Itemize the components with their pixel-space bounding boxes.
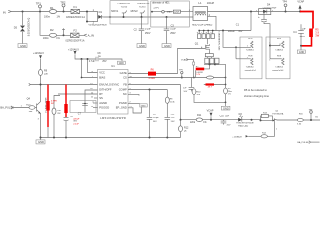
svg-text:5.7k: 5.7k [196,74,200,76]
LED D3 red [236,113,254,127]
svg-text:IN: IN [3,11,6,15]
node TP1 junction [39,11,41,13]
diode D1 [88,10,107,27]
resistor R12 lower divider [179,120,190,138]
power +12VAUX enable feed [33,52,44,70]
test point TP3 [151,8,193,13]
note charging time [244,88,269,98]
svg-text:5.0SMDJ33CA-Q: 5.0SMDJ33CA-Q [27,18,30,37]
svg-text:BIAS: BIAS [99,75,105,79]
node vcc junction [81,58,83,60]
svg-text:250V: 250V [145,33,151,35]
svg-text:U1: U1 [111,64,115,68]
svg-text:+(TP): +(TP) [153,8,159,10]
svg-text:TL2/10: TL2/10 [121,6,128,8]
svg-text:D1: D1 [99,10,103,14]
svg-text:MOV2: MOV2 [131,10,139,13]
resistor R4 10m sense [225,86,227,89]
wire AGND stub [93,102,98,104]
capacitor C7 soft start box [70,101,96,116]
resistor R14 base [248,122,278,138]
svg-text:GND: GND [164,44,170,48]
resistor R10 comp [192,89,226,107]
svg-text:1uF: 1uF [302,28,307,30]
svg-text:A_IN: A_IN [88,33,94,37]
svg-text:C10: C10 [220,116,225,118]
capacitor C3 0.1uF 250V [164,16,177,44]
svg-text:100uH: 100uH [207,2,215,5]
terminal IN [3,10,11,14]
svg-text:0.1uF: 0.1uF [145,29,151,31]
svg-text:+12VAUX: +12VAUX [68,48,79,51]
svg-text:GND: GND [223,106,229,110]
resistor R3 sense [207,76,214,79]
capacitor C8 1uF 25V vcc [89,52,122,63]
capacitor C6 220uF 35V red [64,116,81,137]
diode D4 CUS520H3F [256,3,277,14]
svg-text:MOV1: MOV1 [111,10,119,13]
svg-text:EN/UVLO/SYNC: EN/UVLO/SYNC [99,82,119,86]
svg-text:alternate of HD1: alternate of HD1 [152,1,170,4]
wire PGOOD stub [93,107,98,109]
resistor R16 5.3k [297,113,320,125]
svg-text:GND: GND [299,51,305,54]
node input junction [22,11,24,13]
svg-text:GND: GND [119,63,124,65]
svg-text:Q1: Q1 [195,42,199,46]
svg-text:3W: 3W [315,34,319,38]
svg-text:R5 to be reduced to: R5 to be reduced to [244,88,267,92]
node LED junction [251,119,253,121]
svg-text:1%: 1% [203,122,206,124]
svg-text:100m: 100m [43,37,49,40]
resistor R15 base [21,105,37,114]
svg-text:manual of fr4: manual of fr4 [245,69,256,72]
svg-text:BA_PULSE: BA_PULSE [0,106,14,110]
wire TVS branch [22,12,24,26]
varistor MOV2 [131,3,150,18]
svg-text:VCAP: VCAP [297,1,304,4]
resistor R7 current sense red [196,66,205,77]
node bias junction [87,58,89,60]
svg-text:PZT3904TA: PZT3904TA [272,112,284,115]
resistor R5 3.9 3W red [309,28,320,38]
resistor R9 10k [39,70,49,101]
svg-text:35V: 35V [73,121,77,123]
svg-text:RT: RT [99,92,103,96]
wire rail after D1 [103,16,193,18]
svg-text:+: + [258,15,260,19]
svg-text:1uF: 1uF [225,116,230,118]
alternate diode note box [151,1,190,27]
svg-text:YSSDKP24TN20E: YSSDKP24TN20E [236,123,254,125]
svg-text:7-0B08-0: 7-0B08-0 [275,67,283,69]
svg-text:F2: F2 [74,29,78,33]
capacitor C11 22n 50V [165,114,176,137]
power VCAP [297,1,304,13]
fuse F2 0ZRE0250FF1A [66,29,85,43]
svg-text:R12: R12 [184,126,189,129]
wire second row branch [40,12,84,36]
resistor R11 220k [190,114,207,124]
svg-text:25V: 25V [102,61,107,63]
test point TP4 [282,1,287,12]
svg-text:PGND: PGND [119,101,127,105]
wire sense kelvin corner [188,60,194,62]
resistor R18 red series [64,85,67,118]
svg-text:GND: GND [20,44,26,48]
wire FB divider drop [180,85,182,120]
wire COMP [128,89,167,91]
capacitor C1 220uF 35V [228,11,270,59]
svg-text:7-0B08-0: 7-0B08-0 [246,49,254,51]
svg-text:0ZRE0250FF1A: 0ZRE0250FF1A [66,16,85,19]
node TP6 junction [63,34,65,36]
svg-text:25V: 25V [227,124,231,126]
transistor Q4 MMBT3904 [27,97,47,137]
svg-text:AGND: AGND [99,101,107,105]
svg-text:VS-BDXLER-M3/I: VS-BDXLER-M3/I [88,24,107,26]
svg-text:7-0B08-0: 7-0B08-0 [246,67,254,69]
svg-text:SS: SS [99,96,103,100]
svg-text:R11: R11 [197,114,202,117]
svg-text:F1: F1 [74,5,78,9]
svg-text:GND: GND [141,106,146,108]
svg-text:NC: NC [123,92,127,96]
wire FB [128,84,181,86]
svg-text:VCC: VCC [99,70,105,74]
capacitor C2 0.1uF 250V [134,17,152,44]
node switch junction [250,11,252,13]
ground bottom rail [36,138,45,145]
svg-text:shorten charging time: shorten charging time [244,94,269,98]
ground C3 [162,44,171,48]
test point TP1 [36,1,42,11]
ground VCAP return [297,46,305,54]
svg-text:50V: 50V [153,121,157,123]
wire C1 return into array [269,45,271,47]
wire Q1 drain rail [199,30,251,32]
resistor array box left [222,30,262,79]
ground PGND box [140,104,147,108]
svg-text:250V: 250V [300,36,306,38]
terminal BA_PULSE output [297,141,319,144]
wire switch node down [250,12,252,31]
resistor R13 base bypass [261,113,273,121]
svg-text:BA_PULSE: BA_PULSE [297,141,309,144]
wire SS pin [94,97,98,99]
wire L1 output [208,11,301,13]
wire VCAP sense row [181,119,273,122]
svg-text:EP_GND: EP_GND [116,105,127,109]
wire PGND EP [128,103,140,105]
resistor R2 100m [43,28,61,40]
svg-text:220pF: 220pF [153,117,160,119]
svg-text:PGOOD: PGOOD [99,105,109,109]
wire BIAS pin [82,59,98,78]
diode D1 package box [86,9,98,23]
svg-text:250V: 250V [170,33,176,35]
wire RT pin [58,93,98,95]
power VCAP sense [207,110,214,121]
power +12VAUX vcc feed [68,48,96,59]
wire VCAP red charging path [300,12,313,29]
svg-text:R2: R2 [50,28,54,32]
svg-text:RED LED: RED LED [238,125,248,127]
svg-text:0.1uF: 0.1uF [170,29,176,31]
terminal +12VAUX output [232,135,248,138]
ground R10 [221,106,230,110]
wire Q1 source to sense divider [215,64,226,85]
svg-text:GND: GND [139,44,145,48]
svg-text:LM5106MHPWPR: LM5106MHPWPR [100,116,126,120]
svg-text:GATE: GATE [120,71,127,75]
terminal EN stub [29,83,31,85]
terminal BA_PULSE input [0,106,29,110]
svg-text:4.7uF: 4.7uF [89,61,95,63]
TVS D5 5.0SMDJ33CA-Q [14,18,31,44]
test point TP6 [62,28,65,35]
inductor L1 100uH [189,1,215,27]
resistor R17 4.99R red [46,100,57,110]
wire CS [131,77,226,79]
capacitor C10 1uF [220,116,231,127]
MOV group box [110,1,148,24]
wire VCAP return red [301,37,312,46]
fuse F1 0ZRE0250FF1A [66,5,85,19]
capacitor C4 1uF 250V [293,24,306,46]
wire EN [30,84,97,86]
svg-text:GND: GND [38,140,44,144]
wire DITH pin [85,90,98,101]
resistor array box right [266,37,290,79]
svg-text:TL2/10: TL2/10 [139,6,146,8]
wire NC stub [128,94,139,95]
test point TP8 [309,110,314,122]
capacitor C12 CS filter [183,78,194,93]
wire GATE [131,49,206,74]
wire VCC pin [88,59,98,73]
svg-text:1%: 1% [228,93,231,95]
node TP4 junction [285,11,287,13]
transistor Q1 MOSFET [195,30,221,64]
ground input TVS [18,44,27,48]
node Q2 base loop junction [260,119,262,121]
wire RT corner mark [54,96,60,104]
svg-text:COMP: COMP [119,87,127,91]
resistor R1 100m [44,6,61,18]
node TP2 junction [63,11,65,13]
test point TP5 [179,70,184,79]
wire ground rail bottom [41,137,181,139]
svg-text:4.99R: 4.99R [51,100,57,102]
transistor Q2 PZT3904TA [272,110,297,122]
wire input rail [11,11,87,13]
svg-text:2.2uF: 2.2uF [73,123,79,125]
svg-text:DITH/OFF: DITH/OFF [99,87,112,91]
svg-text:+12VAUX: +12VAUX [232,135,242,138]
svg-text:50V: 50V [171,121,175,123]
svg-text:CS: CS [123,75,127,79]
svg-text:manual of fr4: manual of fr4 [272,69,283,72]
diode D2 alternate MBR [167,10,181,14]
ground C2 [137,44,146,48]
svg-text:FB: FB [123,82,127,86]
svg-text:0ZRE0250FF1A: 0ZRE0250FF1A [66,40,85,43]
varistor MOV1 [111,3,131,18]
svg-text:MSD-0114-104ME3: MSD-0114-104ME3 [192,25,213,27]
capacitor C9 220pF 50V [147,90,160,138]
resistor R8 comp filter [165,90,175,118]
terminal A_IN [84,33,94,37]
wire red EN net [47,85,49,138]
svg-text:7-0B08-0: 7-0B08-0 [275,49,283,51]
svg-text:TP4: TP4 [282,1,287,4]
svg-text:VCAP: VCAP [181,58,187,61]
svg-text:7-0B0X8-250: 7-0B0X8-250 [137,3,150,5]
resistor R6 gate red [148,69,156,80]
svg-text:VCAP: VCAP [207,110,214,113]
svg-text:DNP: DNP [174,12,179,14]
svg-text:7-0B0X8-250: 7-0B0X8-250 [117,3,130,5]
svg-text:Q4: Q4 [27,97,31,100]
test point TP2 [60,1,66,12]
IC U1 LM5106MHPWPR [90,64,132,120]
wire Q1 source to CS [204,63,219,65]
wire L1 pin2 to switch rail [208,16,217,30]
svg-text:+12VAUX: +12VAUX [33,52,44,55]
svg-text:L1: L1 [198,1,202,5]
resistor R13 discharge 10k [52,103,62,138]
svg-text:L5A5EBEB7C-HA3: L5A5EBEB7C-HA3 [217,32,220,52]
svg-text:MMBT3904-7-F: MMBT3904-7-F [44,98,46,114]
svg-text:100m: 100m [44,15,50,18]
svg-text:MBR: MBR [167,11,172,13]
resistor R19 48.7k red highlighted [204,83,226,88]
svg-text:220k: 220k [190,122,196,124]
ground C8 [118,61,126,65]
